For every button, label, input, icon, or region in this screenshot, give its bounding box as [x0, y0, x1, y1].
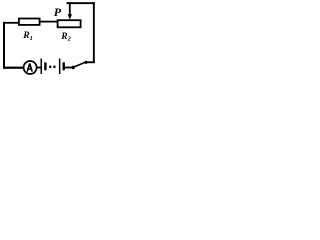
switch S (open knife switch)	[71, 61, 87, 69]
wire bottom-right horizontal	[87, 61, 95, 63]
wire top-left horizontal	[3, 22, 19, 24]
battery B (two cells with dots)	[41, 59, 65, 75]
wire bottom-left horizontal	[3, 67, 24, 69]
wiper arrow of potentiometer	[68, 2, 72, 19]
wire left vertical	[3, 22, 5, 69]
svg-text:P: P	[54, 5, 62, 19]
svg-text:R2: R2	[60, 32, 71, 43]
resistor R1	[19, 19, 40, 25]
wire right vertical	[93, 2, 95, 63]
svg-text:R1: R1	[22, 31, 33, 42]
wire ammeter to battery	[37, 67, 41, 69]
resistor R2	[58, 20, 81, 27]
wire R1 to R2	[40, 21, 58, 23]
wire top-right horizontal	[67, 2, 95, 4]
ammeter A	[24, 61, 37, 74]
wire battery to switch	[65, 67, 74, 69]
